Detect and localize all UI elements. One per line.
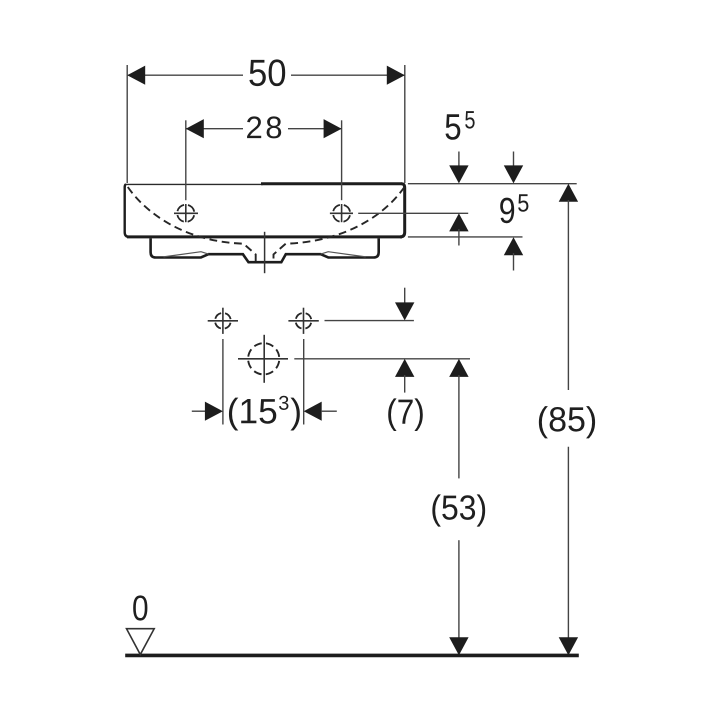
dimension 28 extension line right — [341, 120, 343, 200]
svg-text:0: 0 — [132, 588, 149, 628]
basin underside outline — [151, 238, 379, 262]
dimension 15.3 right arrow — [304, 402, 322, 421]
drain hole crosshair — [238, 358, 288, 360]
svg-text:): ) — [290, 392, 302, 431]
svg-text:5: 5 — [517, 190, 529, 218]
washbasin top edge rear (thin) — [126, 183, 264, 185]
fixing hole line extension right — [325, 320, 414, 322]
dimension 50 extension line left — [126, 65, 128, 183]
bowl hidden contour left (dashed) — [128, 187, 256, 262]
svg-text:(7): (7) — [386, 393, 425, 432]
svg-text:(15: (15 — [227, 392, 278, 431]
dimension 50 extension line right — [404, 65, 406, 183]
dimension 28 arrow left — [186, 119, 204, 138]
dimension 7 bottom arrow — [395, 359, 414, 377]
dimension 28 arrow right — [324, 119, 342, 138]
dimension 5.5 top arrow — [458, 152, 460, 169]
dimension 28 extension line left — [185, 120, 187, 200]
basin underside inner contour right — [321, 252, 366, 257]
drain line extension right — [294, 358, 470, 360]
tap hole right dashed circle — [333, 205, 350, 222]
svg-text:5: 5 — [444, 106, 461, 147]
dimension 7 top arrow — [404, 288, 406, 305]
fixing hole left crosshair — [208, 320, 238, 322]
dimension 15.3 left arrow — [192, 410, 206, 412]
washbasin bottom edge — [127, 235, 402, 238]
svg-text:28: 28 — [245, 110, 285, 145]
fixing hole left dashed circle — [215, 313, 231, 329]
fixing hole right dashed circle — [296, 313, 312, 329]
drain centerline — [264, 232, 266, 273]
tap hole right crosshair — [330, 212, 353, 214]
svg-text:(85): (85) — [537, 401, 597, 439]
svg-text:50: 50 — [248, 52, 287, 94]
tap hole line extension right — [358, 212, 468, 214]
washbasin right edge — [400, 184, 405, 237]
dimension 28 line — [187, 128, 244, 130]
dimension 5.5 bottom arrow — [449, 213, 468, 231]
dimension 50 arrow right — [387, 66, 405, 85]
dimension 53 line — [449, 359, 468, 377]
dimension 15.3 extension line left — [222, 339, 224, 425]
tap hole left dashed circle — [177, 205, 194, 222]
dimension 15.3 extension line right — [303, 339, 305, 425]
tap hole left crosshair — [174, 212, 198, 214]
dimension 9.5 bottom arrow — [504, 237, 523, 255]
svg-text:5: 5 — [464, 106, 475, 134]
dimension 85 line — [559, 184, 578, 202]
dimension 50 line — [128, 74, 243, 76]
floor line — [125, 654, 579, 658]
fixing hole right crosshair — [288, 320, 318, 322]
bowl hidden contour right (dashed) — [274, 187, 405, 262]
basin top extension line right — [408, 183, 577, 185]
basin underside inner contour left — [164, 252, 209, 257]
drain hole dashed circle — [248, 343, 279, 374]
washbasin left edge — [125, 184, 130, 237]
dimension 50 arrow left — [127, 66, 145, 85]
svg-text:3: 3 — [278, 393, 289, 415]
svg-text:9: 9 — [499, 190, 516, 231]
basin bottom extension line right — [408, 236, 523, 238]
dimension 9.5 top arrow — [513, 152, 515, 169]
svg-text:(53): (53) — [430, 489, 487, 527]
datum zero triangle — [127, 629, 155, 655]
washbasin top edge front (thick) — [261, 182, 402, 185]
